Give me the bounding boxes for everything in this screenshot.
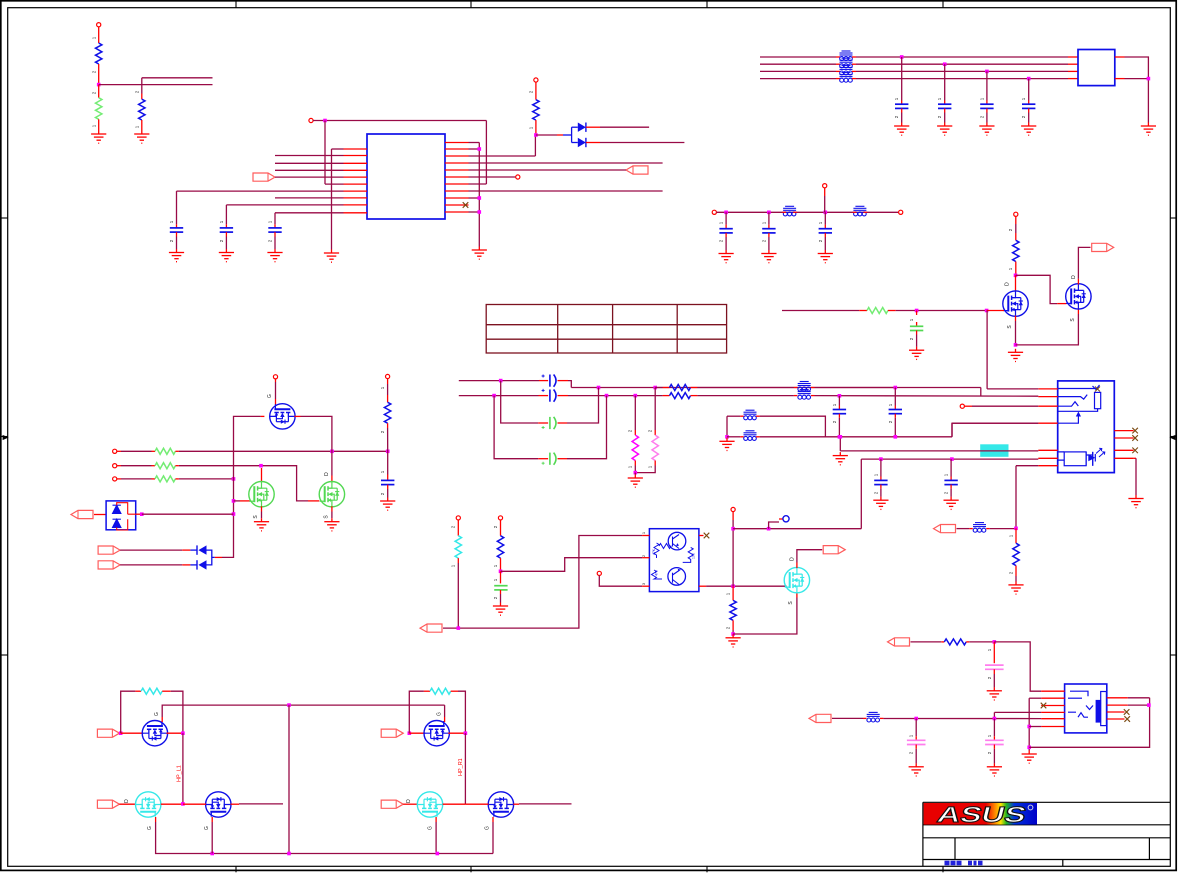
wire green cap1 right bbox=[567, 388, 599, 424]
wire CG3 bottom bbox=[500, 594, 502, 603]
junction Q1 source bbox=[1014, 343, 1018, 347]
pin stub bbox=[500, 528, 502, 536]
pin stub bbox=[1015, 216, 1017, 224]
terminal input 3 bbox=[113, 477, 117, 481]
wire R9 top bbox=[654, 388, 656, 431]
wire R4 to D1 bbox=[536, 134, 557, 136]
wire R16 to junction bbox=[969, 641, 994, 643]
junction top net bbox=[323, 119, 327, 123]
pin stub bbox=[119, 803, 135, 805]
wire row C bbox=[179, 478, 234, 480]
wire U1 rpin4 long bbox=[469, 162, 663, 164]
terminal VCC top-left bbox=[97, 23, 101, 27]
wire row0 jog bbox=[568, 381, 571, 388]
wire U1 pin6 bbox=[325, 183, 344, 185]
resistor RN2 bbox=[155, 463, 175, 469]
wire out3 net bbox=[883, 718, 1041, 720]
capacitor CG2 bbox=[550, 453, 556, 465]
wire green cap1 left bbox=[501, 381, 539, 423]
wire U1 pin8 stub bbox=[275, 197, 344, 199]
wire bus to pin5 bbox=[839, 437, 841, 451]
wire Q3 drain to port bbox=[797, 550, 822, 563]
wire row B to M2 gate bbox=[179, 466, 308, 501]
jack J3 internals bbox=[1068, 691, 1106, 725]
port mute out bbox=[823, 546, 845, 554]
ground U1 left bbox=[324, 250, 339, 263]
port input U1 pin5 bbox=[253, 173, 275, 181]
border centre arrow left bbox=[3, 435, 9, 440]
wire T4S to T5S bbox=[464, 733, 466, 804]
wire T1S to T2S bbox=[182, 733, 184, 804]
connector J1 body bbox=[1078, 50, 1115, 86]
wire J3 pin2 bbox=[1029, 697, 1041, 699]
audio jack J3 body bbox=[1065, 684, 1107, 733]
pin stub bbox=[500, 590, 502, 594]
wire mute horizontal bbox=[733, 528, 861, 530]
terminal bus right bbox=[899, 210, 903, 214]
capacitor C16 bbox=[889, 410, 902, 414]
svg-text:G: G bbox=[204, 826, 210, 830]
wire jack pin6 bbox=[861, 458, 1038, 460]
svg-text:HP_R1: HP_R1 bbox=[458, 758, 464, 776]
ground CM2 bbox=[909, 763, 924, 776]
pin stub bbox=[944, 101, 946, 105]
wire RL top left bbox=[121, 691, 136, 733]
ground lower bus bbox=[719, 438, 734, 451]
junction HP gate bus bbox=[287, 703, 291, 707]
wire CM1 bottom bbox=[993, 674, 995, 687]
pin stub bbox=[117, 450, 121, 452]
wire J1 row2 right bbox=[856, 63, 1068, 65]
port audio pin7 bbox=[934, 525, 956, 533]
pin stub bbox=[94, 514, 106, 516]
junction rpin2 bbox=[478, 147, 482, 151]
wire port to bead bbox=[957, 528, 970, 530]
resistor R8 bbox=[632, 435, 638, 460]
ground C5 bbox=[937, 123, 952, 136]
ground Q1 bbox=[1008, 349, 1023, 362]
wire J3 pin4 jog bbox=[993, 712, 995, 718]
wire R4 to rpin3 bbox=[534, 135, 536, 156]
junction J1 out bbox=[1147, 77, 1151, 81]
capacitor C9 bbox=[762, 229, 775, 233]
pin stub bbox=[535, 120, 537, 135]
pin stub bbox=[836, 78, 840, 80]
ASUS logo bbox=[924, 803, 1037, 825]
junction J3 switch bbox=[1147, 703, 1151, 707]
pin stub bbox=[794, 395, 798, 397]
svg-text:47K: 47K bbox=[652, 548, 656, 555]
wire lower bus to jack pin4 bbox=[952, 423, 1038, 437]
no-connect X J3 r3 bbox=[1124, 709, 1130, 715]
pin stub bbox=[387, 395, 389, 402]
pin stub bbox=[294, 415, 300, 417]
no-connect X J2 r1 bbox=[1132, 428, 1138, 434]
wire RR top left bbox=[409, 691, 424, 733]
capacitor CG3 bbox=[494, 586, 507, 590]
wire M1 source bbox=[261, 512, 263, 519]
wire audio row1 bbox=[571, 387, 981, 389]
capacitor C10 bbox=[819, 229, 832, 233]
junction ground bus bbox=[725, 435, 729, 439]
pin stub bbox=[135, 690, 141, 692]
no-connect X U1 rpin10 bbox=[463, 202, 469, 208]
capacitor C6 bbox=[980, 104, 993, 108]
wire J1 out top bbox=[1125, 57, 1149, 123]
pin stub bbox=[274, 224, 276, 228]
junction C8 bbox=[724, 211, 728, 215]
pin stub bbox=[880, 485, 882, 489]
pin stub bbox=[1015, 275, 1017, 291]
wire gate bus to bottom bus bbox=[288, 705, 290, 853]
junction TVS net bbox=[232, 512, 236, 516]
wire audio row2 left bbox=[459, 395, 539, 397]
diode D2 bbox=[578, 138, 586, 147]
pin stub bbox=[811, 395, 815, 397]
junction Q1 gate bbox=[985, 309, 989, 313]
terminal U2 pin3 bbox=[597, 571, 601, 575]
wire U1 pin1 bbox=[332, 148, 344, 150]
wire J3 r2 bbox=[1128, 704, 1149, 706]
wire audio row1 jog bbox=[980, 388, 982, 396]
wire D5 bbox=[120, 564, 182, 566]
pin stub bbox=[852, 56, 856, 58]
terminal input 2 bbox=[113, 464, 117, 468]
wire U1 pin5 bbox=[275, 176, 344, 178]
wire top terminal to bus bbox=[824, 196, 826, 212]
pin stub bbox=[558, 422, 568, 424]
junction NC circle bbox=[767, 527, 771, 531]
junction lower bus C16 bbox=[894, 435, 898, 439]
wire C14 top bbox=[950, 459, 952, 476]
wire to ground R8 bbox=[634, 473, 636, 475]
pin stub bbox=[916, 311, 918, 316]
pin stub bbox=[261, 415, 265, 417]
pin stub bbox=[852, 63, 856, 65]
capacitor CG2 plus bbox=[542, 462, 545, 465]
capacitor C15 bbox=[833, 410, 846, 414]
resistor R15 bbox=[430, 688, 451, 694]
pin stub bbox=[435, 817, 437, 822]
pin stub bbox=[403, 803, 417, 805]
jack J2 left pins bbox=[1038, 389, 1057, 466]
svg-text:475: 475 bbox=[655, 570, 659, 576]
pin stub bbox=[513, 803, 519, 805]
transistor T4 bbox=[424, 721, 449, 746]
wire J3 pin4 bbox=[994, 711, 1041, 713]
pin stub bbox=[98, 85, 100, 98]
pin stub bbox=[1068, 78, 1078, 80]
pin stub bbox=[211, 817, 213, 822]
pin stub bbox=[176, 224, 178, 228]
junction CM3 bbox=[993, 717, 997, 721]
pin stub bbox=[993, 736, 995, 740]
junction C11 bbox=[915, 309, 919, 313]
wire bead to junction bbox=[990, 528, 1016, 530]
pin stub bbox=[654, 430, 656, 435]
svg-text:D: D bbox=[406, 799, 412, 803]
pin stub bbox=[1068, 56, 1078, 58]
jack J2 X mark bbox=[1095, 387, 1100, 392]
svg-text:G: G bbox=[485, 826, 491, 830]
junction row C bbox=[232, 477, 236, 481]
wire C4 bottom bbox=[901, 113, 903, 123]
wire port to R16 bbox=[911, 641, 942, 643]
ground C11 bbox=[909, 347, 924, 360]
IC U1 right pins bbox=[445, 143, 469, 213]
pin stub bbox=[811, 387, 815, 389]
pin stub bbox=[586, 142, 600, 144]
ground C3 bbox=[267, 249, 282, 262]
pin stub bbox=[880, 477, 882, 481]
pin stub bbox=[500, 558, 502, 571]
pin stub bbox=[1068, 63, 1078, 65]
audio jack J2 body bbox=[1058, 381, 1115, 473]
wire C14 bottom bbox=[950, 489, 952, 497]
pin stub bbox=[539, 380, 548, 382]
pin stub bbox=[691, 395, 698, 397]
wire R17 bottom bbox=[1015, 576, 1017, 582]
pin stub bbox=[117, 478, 121, 480]
junction TVS out bbox=[140, 512, 144, 516]
wire R8 top bbox=[634, 396, 636, 430]
wire J2 shield bbox=[1135, 458, 1137, 495]
resistor R14 bbox=[141, 688, 162, 694]
pin stub bbox=[152, 478, 156, 480]
ground J3 bbox=[1022, 751, 1037, 764]
pin stub bbox=[824, 188, 826, 196]
no-connect X J2 r3 bbox=[1132, 448, 1138, 454]
capacitor CM1 bbox=[985, 665, 1004, 669]
wire C4 top bbox=[901, 57, 903, 101]
wire RL top right bbox=[171, 691, 183, 733]
wire Q1 drain to Q2 gate bbox=[1016, 275, 1058, 303]
wire R6 top bbox=[1015, 224, 1017, 233]
pin stub bbox=[535, 82, 537, 100]
inductor L1 bbox=[840, 51, 853, 61]
junction pin5 branch bbox=[839, 435, 843, 439]
diode pair link bbox=[563, 127, 578, 142]
wire D1 out bbox=[600, 126, 649, 128]
no-connect X U2 bbox=[704, 533, 710, 539]
terminal U1 top bbox=[309, 118, 313, 122]
wire R11 bottom bbox=[457, 563, 459, 628]
pin stub bbox=[1015, 528, 1017, 543]
pin stub bbox=[852, 70, 856, 72]
junction row2 cap bbox=[943, 62, 947, 66]
junction jack pin6 cap bbox=[950, 457, 954, 461]
ground C17 bbox=[380, 498, 395, 511]
jack J2 right pins bbox=[1114, 431, 1133, 459]
terminal U1 rpin6 bbox=[516, 175, 520, 179]
wire Q2 drain to port bbox=[1078, 247, 1090, 278]
wire M3 drain to M1 column bbox=[301, 416, 332, 475]
pin stub bbox=[443, 803, 466, 805]
junction M1 gate bbox=[232, 499, 236, 503]
svg-text:G: G bbox=[147, 826, 153, 830]
wire row A bbox=[179, 450, 388, 452]
terminal jack pin3 bbox=[960, 404, 964, 408]
title block frame bbox=[923, 802, 1170, 866]
pin stub bbox=[558, 380, 569, 382]
wire C13 top bbox=[880, 459, 882, 476]
transistor T6 bbox=[488, 792, 513, 817]
pin stub bbox=[987, 310, 1004, 312]
wire J1 row4 left bbox=[760, 78, 836, 80]
pin stub bbox=[1015, 233, 1017, 240]
wire M2 source bbox=[331, 512, 333, 519]
pin stub bbox=[654, 461, 656, 466]
pin stub bbox=[794, 387, 798, 389]
pin stub bbox=[175, 465, 179, 467]
pin stub bbox=[880, 717, 884, 719]
ground J2 bbox=[1128, 495, 1143, 508]
junction row2 bbox=[492, 394, 496, 398]
wire J1 row2 left bbox=[760, 63, 836, 65]
junction green cap2 bbox=[605, 394, 609, 398]
pin stub bbox=[901, 108, 903, 112]
inductor L10 bbox=[744, 431, 757, 441]
pin stub bbox=[1015, 262, 1017, 276]
port HP R in bbox=[381, 729, 403, 737]
wire C7 top bbox=[1028, 79, 1030, 101]
wire Q1 gate net left bbox=[782, 310, 859, 312]
wire U1 rpin11 bbox=[469, 211, 480, 213]
pin stub bbox=[768, 225, 770, 229]
junction C10 bbox=[824, 211, 828, 215]
pin stub bbox=[901, 101, 903, 105]
transistor T1 bbox=[142, 721, 167, 746]
ground M2 bbox=[324, 518, 339, 531]
svg-text:HP_L1: HP_L1 bbox=[177, 765, 183, 782]
pin stub bbox=[308, 500, 319, 502]
pin stub bbox=[183, 803, 206, 805]
wire T3 gate bbox=[211, 822, 213, 854]
wire C10 bottom bbox=[824, 237, 826, 250]
wire green cap2 left bbox=[494, 396, 538, 459]
pin stub bbox=[1015, 566, 1017, 576]
pin stub bbox=[175, 478, 179, 480]
port line1 bbox=[98, 546, 120, 554]
junction row0 bbox=[499, 379, 503, 383]
resistor R16 bbox=[944, 639, 966, 645]
pin stub bbox=[387, 475, 389, 481]
wire U1 pin10 bbox=[275, 212, 344, 214]
wire mute to jack pin6 bbox=[860, 459, 862, 529]
ground R17 bbox=[1008, 581, 1023, 594]
ground U1 right bbox=[472, 247, 487, 260]
junction HP L in bbox=[119, 731, 123, 735]
pin stub bbox=[740, 415, 744, 417]
pin stub bbox=[162, 690, 171, 692]
pin stub bbox=[725, 233, 727, 237]
junction J3 pin6 bbox=[1027, 725, 1031, 729]
pin stub bbox=[457, 528, 459, 536]
wire J3 pin6 bbox=[1029, 726, 1041, 728]
wire U1 rpin6 bbox=[469, 176, 516, 178]
pin stub bbox=[894, 414, 896, 418]
wire bottom bus bbox=[156, 822, 493, 854]
junction pin7/R17 bbox=[1014, 527, 1018, 531]
capacitor C5 bbox=[938, 104, 951, 108]
junction CM2 bbox=[914, 717, 918, 721]
wire bead upper right bbox=[760, 416, 826, 437]
pin stub bbox=[993, 669, 995, 674]
wire M1 gate bbox=[234, 500, 241, 502]
wire U1 rpin5 bbox=[469, 169, 627, 171]
pin stub bbox=[836, 70, 840, 72]
capacitor C4 bbox=[895, 104, 908, 108]
pin stub bbox=[182, 549, 190, 551]
pin stub bbox=[894, 406, 896, 410]
wire jack pin5 bbox=[840, 450, 1038, 452]
pin stub bbox=[838, 414, 840, 418]
junction rpin11 bbox=[478, 210, 482, 214]
pin stub bbox=[121, 732, 144, 734]
resistor R6 bbox=[1013, 240, 1019, 261]
junction R4/D1 bbox=[534, 133, 538, 137]
wire row1 after bead bbox=[815, 387, 896, 389]
wire U1 rpin3 bbox=[469, 155, 536, 157]
wire to U2 pin1 bbox=[443, 536, 642, 629]
junction row3 cap bbox=[985, 70, 989, 74]
svg-text:G: G bbox=[154, 712, 160, 716]
port HP L2 in bbox=[97, 800, 119, 808]
junction rpin9 bbox=[478, 196, 482, 200]
port HP L in bbox=[97, 729, 119, 737]
terminal input 1 bbox=[113, 449, 117, 453]
wire port3 to bead bbox=[832, 717, 863, 719]
wire R10 top bbox=[387, 384, 389, 395]
ground C9 bbox=[761, 250, 776, 263]
pin stub bbox=[141, 94, 143, 100]
pin stub bbox=[691, 387, 698, 389]
pin stub bbox=[915, 745, 917, 749]
transistor M3 bbox=[270, 404, 295, 429]
junction J3 loop bbox=[1027, 746, 1031, 750]
junction U2 out bbox=[731, 584, 735, 588]
ground C8 bbox=[719, 250, 734, 263]
terminal R6 top bbox=[1014, 212, 1018, 216]
pin stub bbox=[634, 461, 636, 466]
capacitor CG1 plus bbox=[542, 426, 545, 429]
transistor Q1 bbox=[1003, 291, 1028, 316]
jack J3 left pins bbox=[1041, 691, 1064, 726]
pin stub bbox=[457, 520, 459, 528]
wire C15 bottom bbox=[838, 418, 840, 437]
pin stub bbox=[1068, 70, 1078, 72]
junction row4 cap bbox=[1027, 77, 1031, 81]
wire jack pin4 bbox=[952, 422, 1038, 424]
pin stub bbox=[836, 56, 840, 58]
svg-text:D: D bbox=[1071, 275, 1077, 279]
port audio out2 bbox=[888, 638, 910, 646]
wire J3 r1 bbox=[1128, 697, 1150, 699]
pin stub bbox=[586, 126, 600, 128]
wire input 2 left bbox=[121, 465, 152, 467]
wire input 3 left bbox=[121, 478, 152, 480]
transistor pack U2 body bbox=[649, 529, 699, 592]
port audio out3 bbox=[809, 714, 831, 722]
wire J3 switch loop bbox=[1029, 698, 1149, 748]
terminal bus left bbox=[712, 210, 716, 214]
wire U1 pin4 stub bbox=[275, 169, 344, 171]
pin stub bbox=[117, 465, 121, 467]
wire C10 top bbox=[824, 212, 826, 224]
IC U1 left pins bbox=[344, 149, 368, 213]
capacitor CG1 bbox=[550, 417, 556, 429]
terminal R12 top bbox=[498, 516, 502, 520]
